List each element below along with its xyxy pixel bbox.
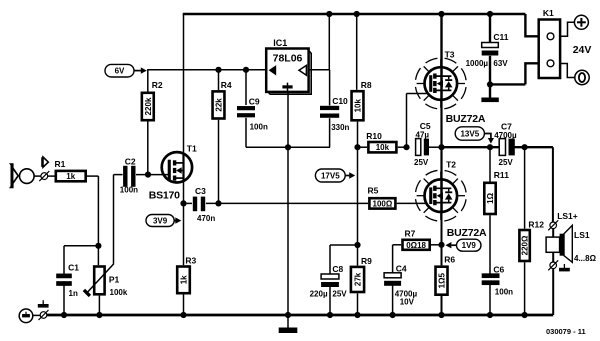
svg-text:4700µ: 4700µ (494, 131, 517, 140)
svg-text:470n: 470n (197, 214, 215, 223)
svg-text:R2: R2 (152, 80, 163, 90)
svg-text:10V: 10V (400, 298, 415, 307)
svg-text:6V: 6V (115, 67, 125, 76)
svg-text:22k: 22k (215, 98, 224, 112)
svg-text:T2: T2 (446, 159, 456, 169)
svg-text:IC1: IC1 (273, 38, 287, 48)
svg-text:C7: C7 (501, 121, 512, 131)
svg-text:R7: R7 (405, 229, 416, 239)
svg-text:R3: R3 (185, 256, 196, 266)
svg-text:LS1+: LS1+ (557, 211, 578, 221)
svg-text:R11: R11 (494, 170, 509, 180)
svg-text:K1: K1 (543, 8, 554, 18)
svg-text:25V: 25V (332, 289, 347, 298)
svg-text:0Ω18: 0Ω18 (406, 241, 426, 250)
svg-text:100k: 100k (110, 288, 128, 297)
svg-text:1k: 1k (180, 275, 189, 284)
svg-text:100Ω: 100Ω (373, 199, 393, 208)
svg-text:220k: 220k (144, 97, 153, 115)
svg-text:10k: 10k (376, 143, 390, 152)
svg-text:10k: 10k (354, 99, 363, 113)
svg-text:220µ: 220µ (310, 289, 328, 298)
svg-text:R4: R4 (221, 80, 232, 90)
svg-text:BS170: BS170 (149, 190, 180, 202)
svg-text:C8: C8 (332, 264, 343, 274)
svg-text:1V9: 1V9 (462, 241, 477, 250)
svg-text:330n: 330n (331, 123, 349, 132)
svg-text:25V: 25V (414, 158, 429, 167)
svg-text:17V5: 17V5 (321, 171, 340, 180)
svg-text:78L06: 78L06 (273, 53, 303, 65)
svg-text:100n: 100n (495, 287, 513, 296)
svg-text:C2: C2 (125, 157, 136, 167)
svg-text:R9: R9 (361, 256, 372, 266)
svg-text:47µ: 47µ (416, 130, 430, 139)
svg-text:P1: P1 (109, 274, 120, 284)
svg-text:3V9: 3V9 (153, 216, 168, 225)
svg-text:R1: R1 (55, 159, 66, 169)
svg-text:C11: C11 (493, 32, 508, 42)
svg-text:25V: 25V (499, 158, 514, 167)
svg-text:C4: C4 (396, 264, 407, 274)
svg-text:1k: 1k (66, 172, 75, 181)
svg-text:T3: T3 (445, 49, 455, 59)
svg-text:BUZ72A: BUZ72A (447, 227, 487, 239)
svg-text:1Ω: 1Ω (486, 192, 495, 203)
svg-text:BUZ72A: BUZ72A (446, 113, 486, 125)
svg-text:C1: C1 (68, 263, 79, 273)
svg-text:R5: R5 (368, 185, 379, 195)
svg-text:100n: 100n (250, 123, 268, 132)
svg-text:T1: T1 (187, 144, 197, 154)
svg-text:220Ω: 220Ω (521, 235, 530, 255)
svg-text:R10: R10 (366, 131, 382, 141)
svg-text:R12: R12 (528, 220, 544, 230)
svg-text:63V: 63V (493, 59, 508, 68)
svg-text:4...8Ω: 4...8Ω (574, 254, 597, 263)
svg-text:030079 - 11: 030079 - 11 (546, 327, 586, 336)
svg-text:24V: 24V (573, 44, 592, 56)
svg-text:27k: 27k (354, 272, 363, 286)
svg-text:1n: 1n (69, 289, 78, 298)
svg-text:R8: R8 (361, 80, 372, 90)
svg-text:C9: C9 (249, 97, 260, 107)
svg-text:1Ω5: 1Ω5 (438, 272, 447, 288)
svg-text:1000µ: 1000µ (466, 59, 489, 68)
svg-text:C3: C3 (195, 186, 206, 196)
svg-text:13V5: 13V5 (460, 129, 479, 138)
svg-text:C6: C6 (493, 264, 504, 274)
svg-text:C10: C10 (332, 96, 348, 106)
svg-text:R6: R6 (444, 255, 455, 265)
svg-text:100n: 100n (120, 186, 138, 195)
svg-text:LS1: LS1 (574, 230, 590, 240)
